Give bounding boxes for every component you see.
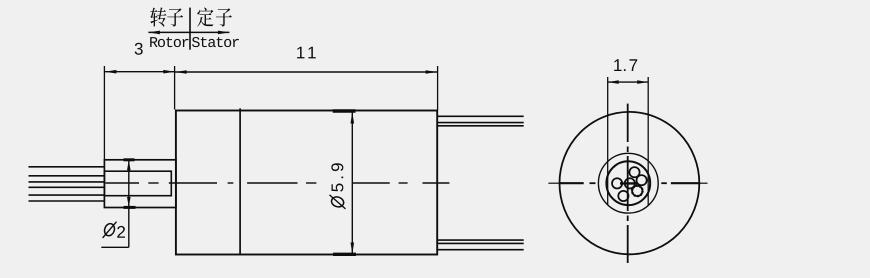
- thick dash body bottom: [333, 253, 356, 256]
- dim 3 line: [104, 71, 175, 73]
- dim text d5.9 rotated: [330, 163, 346, 209]
- stator body: [176, 111, 437, 255]
- dim 11 line: [175, 71, 438, 73]
- dim text 3: [135, 43, 143, 55]
- label 定子 (stator): [197, 7, 232, 26]
- dim 11 extension lines: [174, 66, 176, 110]
- rotor/stator double arrow: [148, 31, 229, 33]
- end view inner circle: [606, 161, 650, 205]
- end view outer circle: [560, 112, 700, 254]
- label Rotor: [150, 37, 188, 47]
- horizontal centerline right view: [548, 182, 707, 184]
- vertical centerline right view: [627, 104, 629, 263]
- left flat chord / ext line: [607, 77, 609, 205]
- label Stator: [192, 37, 239, 47]
- dim text 1.7: [614, 59, 637, 71]
- label 转子 (rotor): [150, 7, 183, 26]
- body division line: [239, 108, 241, 254]
- dim d2 line + leader: [128, 160, 130, 248]
- thick dash collar bottom: [124, 206, 136, 209]
- stator wires top right (3): [437, 115, 524, 117]
- dim 3 extension line: [103, 66, 105, 160]
- rotor collar: [104, 160, 175, 208]
- dim text 11: [297, 47, 316, 59]
- wire circle top: [629, 167, 639, 177]
- wire circle lower right (stranded): [632, 186, 642, 196]
- stator wires bottom right (3): [437, 239, 524, 241]
- rotor/stator divider bar: [189, 8, 191, 50]
- thick dash collar top: [124, 158, 135, 161]
- wire circle center: [625, 178, 635, 188]
- thick dash body top: [333, 109, 356, 112]
- dim text d2: [103, 222, 116, 237]
- wire circle left: [612, 178, 622, 188]
- end view middle ring: [598, 153, 658, 213]
- wire circle upper right: [637, 175, 647, 185]
- dim 1.7 line: [608, 81, 649, 83]
- rotor inner shaft: [104, 171, 171, 196]
- wire circle bottom left: [618, 191, 628, 201]
- rotor lead wires (6): [29, 166, 105, 168]
- dim d5.9 line: [351, 113, 353, 254]
- centerline left view: [106, 182, 450, 184]
- right flat chord / ext line: [647, 77, 649, 205]
